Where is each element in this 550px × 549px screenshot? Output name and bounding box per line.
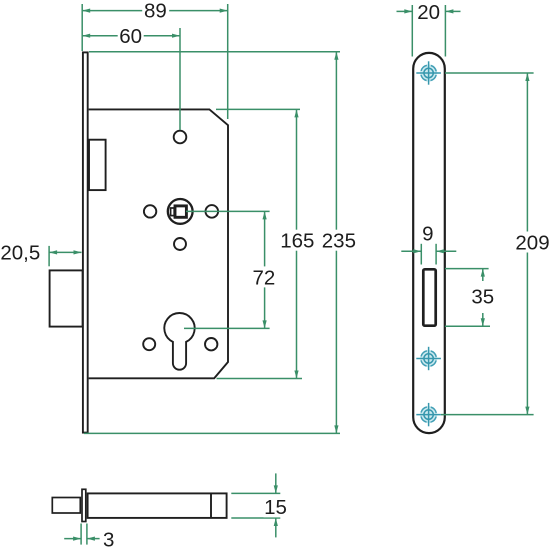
spindle follower outer circle — [168, 199, 193, 224]
dim line 165 — [296, 109, 298, 378]
label 89 — [142, 1, 169, 19]
arrow line 3 left — [64, 538, 81, 540]
arrow 60 right — [172, 34, 180, 38]
arrow 209 bottom — [525, 407, 529, 415]
faceplate bar — [82, 489, 86, 521]
deadbolt (protruding left) — [50, 270, 83, 326]
dim line 209 — [526, 73, 528, 415]
tick 3 left — [80, 524, 82, 545]
arrow 3 right — [87, 537, 95, 541]
label 165 — [279, 230, 315, 251]
faceplate (edge-on strip) — [83, 52, 88, 432]
ext line 209 bottom — [441, 414, 534, 416]
arrow 89 right — [220, 9, 228, 13]
tick 3 right — [86, 524, 88, 545]
faceplate stadium outline — [413, 53, 445, 433]
tick 9 right — [435, 244, 437, 265]
svg-text:15: 15 — [264, 496, 287, 519]
ext line 35 top — [445, 268, 489, 270]
body rectangle — [88, 493, 227, 518]
dim line 60 — [82, 35, 180, 37]
lock case outline — [89, 109, 228, 378]
divider line near right end — [210, 493, 212, 518]
arrow 165 top — [294, 109, 298, 117]
arrow line 3 right — [87, 538, 100, 540]
dim line 15 bottom stub — [275, 518, 277, 537]
screw symbol middle — [416, 347, 441, 370]
spindle notch — [171, 208, 175, 216]
arrow 20 left — [404, 9, 412, 13]
arrow 72 top — [263, 211, 267, 219]
label 60 — [118, 28, 144, 44]
left screw hole beside cylinder — [143, 338, 155, 350]
screw symbol bottom — [416, 403, 441, 426]
arrow line 20 left — [397, 10, 413, 12]
dim line 15 top stub — [275, 473, 277, 493]
left screw hole beside spindle — [144, 205, 156, 217]
svg-text:20: 20 — [417, 1, 440, 24]
ext line left of 89/60 — [81, 4, 83, 51]
arrow 20,5 right — [74, 250, 82, 254]
arrow 235 top — [334, 52, 338, 60]
ext line 20 right — [444, 5, 446, 57]
ext line 209 top — [445, 72, 534, 74]
svg-text:20,5: 20,5 — [0, 242, 40, 265]
ext line 235 bottom — [84, 432, 340, 434]
ext line 15 bottom — [231, 517, 280, 519]
ext line 165 bottom — [217, 378, 303, 380]
ext line 72 top — [186, 210, 270, 212]
arrow 35 bottom — [481, 318, 485, 326]
tick 9 left — [420, 244, 422, 265]
dim line 72 — [264, 211, 266, 328]
svg-text:35: 35 — [471, 286, 494, 309]
hole below spindle — [174, 238, 186, 250]
arrow 15 top — [274, 485, 278, 493]
dim line 20,5 — [49, 251, 81, 253]
svg-text:60: 60 — [119, 25, 142, 48]
svg-text:9: 9 — [422, 223, 433, 246]
arrow line 9 left — [401, 250, 421, 252]
arrow 9 left — [413, 249, 421, 253]
tick for 20,5 — [48, 246, 50, 266]
svg-text:72: 72 — [252, 266, 275, 289]
ext line 165 top — [216, 108, 300, 110]
arrow 209 top — [525, 73, 529, 81]
ext line 15 top — [231, 492, 280, 494]
arrow 20,5 left — [49, 250, 57, 254]
right screw hole beside spindle — [206, 205, 219, 218]
label 235 — [321, 230, 357, 251]
latch protrusion — [52, 498, 80, 514]
ext line for 60 at spindle axis — [179, 28, 181, 130]
label 15 — [264, 496, 288, 517]
arrow line 9 right — [436, 250, 456, 252]
arrow 60 left — [82, 34, 90, 38]
svg-text:235: 235 — [322, 230, 356, 253]
ext line 235 top — [89, 51, 340, 53]
dim line 89 — [82, 10, 228, 12]
screw symbol top — [416, 61, 441, 84]
latch cutout rectangle — [423, 269, 435, 325]
arrow 235 bottom — [334, 425, 338, 433]
arrow 35 top — [481, 269, 485, 277]
label 72 — [252, 266, 276, 287]
dim line 35 bottom stub — [482, 313, 484, 326]
arrow 9 right — [436, 249, 444, 253]
dim line 35 top stub — [482, 269, 484, 281]
top hole — [174, 131, 187, 144]
right screw hole beside cylinder — [205, 338, 217, 350]
arrow line 20 right — [445, 10, 460, 12]
arrow 165 bottom — [294, 371, 298, 379]
dim line 235 — [335, 52, 337, 434]
arrow 15 bottom — [274, 518, 278, 526]
ext line 72 bottom — [184, 327, 270, 329]
euro cylinder profile — [164, 313, 194, 370]
arrow 3 left — [73, 537, 81, 541]
arrow 20 right — [445, 9, 453, 13]
svg-text:89: 89 — [144, 0, 167, 22]
arrow 72 bottom — [263, 320, 267, 328]
label 209 — [515, 232, 550, 253]
ext line 35 bottom — [445, 325, 490, 327]
ext line right of 89 — [227, 4, 229, 119]
spindle square hole — [175, 206, 186, 217]
latch bolt (inner rectangle top-left) — [89, 140, 106, 190]
arrow 89 left — [82, 9, 90, 13]
svg-text:3: 3 — [103, 528, 114, 549]
svg-text:165: 165 — [280, 230, 314, 253]
svg-text:209: 209 — [515, 231, 549, 254]
ext line 20 left — [411, 5, 413, 57]
